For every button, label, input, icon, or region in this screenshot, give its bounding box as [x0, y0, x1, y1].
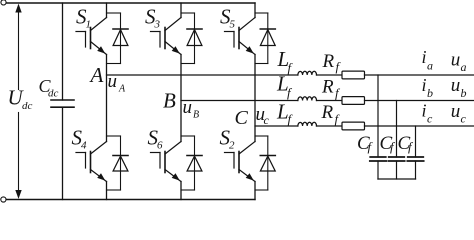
value label Rf (phase B): [321, 76, 341, 100]
svg-text:R: R: [322, 51, 335, 72]
voltage label u_b: [451, 75, 467, 100]
wire phase C : resistor to right edge: [365, 125, 474, 127]
label u_A: [108, 71, 127, 95]
svg-text:6: 6: [157, 140, 163, 152]
svg-text:c: c: [461, 112, 467, 126]
wire leg 3 vertical segments: [254, 3, 256, 200]
value label Lf (phase B): [276, 72, 293, 100]
transistor S6 (lower IGBT leg 2): [151, 142, 182, 182]
svg-text:1: 1: [86, 19, 92, 31]
svg-text:b: b: [427, 86, 433, 100]
label U_dc: [8, 86, 33, 113]
diode D6 (antiparallel, lower leg 2): [181, 136, 202, 190]
value label Rf (phase C): [321, 102, 341, 127]
inductor Lf (phase B): [298, 97, 317, 101]
label S4: [72, 126, 88, 152]
label C_f #3: [398, 133, 415, 154]
node A: [89, 63, 104, 87]
resistor Rf (phase A): [342, 71, 365, 79]
label S1: [76, 5, 91, 31]
label S6: [148, 126, 164, 152]
diode D5 (antiparallel, upper leg 3): [255, 13, 275, 64]
voltage label u_a: [451, 50, 467, 75]
svg-text:i: i: [422, 75, 427, 95]
wire phase C : inductor to resistor: [317, 125, 343, 127]
wire phase C : node to inductor: [255, 125, 298, 127]
wire leg 1 vertical segments: [106, 3, 108, 200]
wire phase B : inductor to resistor: [317, 100, 343, 102]
svg-text:i: i: [422, 101, 427, 121]
label u_B: [183, 97, 200, 121]
value label Lf (phase A): [277, 47, 294, 75]
current label i_c: [422, 101, 434, 126]
diode D2 (antiparallel, lower leg 3): [255, 136, 275, 190]
current label i_a: [422, 47, 434, 72]
label C_f #2: [380, 133, 397, 154]
label S5: [220, 5, 236, 31]
svg-text:2: 2: [229, 140, 235, 152]
svg-text:i: i: [422, 47, 427, 67]
transistor S5 (upper IGBT leg 3): [225, 18, 256, 55]
current label i_b: [422, 75, 434, 100]
svg-text:u: u: [451, 75, 461, 96]
svg-text:b: b: [461, 86, 467, 100]
svg-text:u: u: [451, 101, 461, 122]
label C_dc: [39, 76, 59, 99]
wire capacitor common bar: [378, 178, 416, 180]
svg-text:dc: dc: [22, 100, 33, 112]
label S3: [145, 5, 161, 31]
wire phase B : resistor to right edge: [365, 100, 474, 102]
diode D3 (antiparallel, upper leg 2): [181, 13, 202, 64]
svg-text:c: c: [264, 113, 270, 127]
voltage arrow U_dc (double-headed): [15, 4, 21, 199]
svg-text:u: u: [451, 50, 461, 71]
terminal + (top-left): [1, 0, 6, 5]
inductor Lf (phase A): [298, 71, 317, 75]
voltage label u_c: [451, 101, 467, 126]
resistor Rf (phase C): [342, 122, 365, 130]
value label Lf (phase C): [276, 100, 294, 127]
svg-text:C: C: [235, 107, 249, 129]
svg-text:R: R: [321, 102, 334, 123]
svg-text:R: R: [321, 76, 334, 97]
transistor S3 (upper IGBT leg 2): [151, 18, 182, 55]
capacitor Cf (phase a): [370, 75, 386, 179]
node B: [163, 89, 176, 113]
svg-text:5: 5: [230, 19, 236, 31]
svg-text:a: a: [427, 59, 433, 73]
svg-text:u: u: [183, 97, 193, 118]
wire bottom DC bus: [7, 199, 255, 201]
wire phase B : node to inductor: [181, 100, 298, 102]
value label Rf (phase A): [322, 51, 342, 74]
label u_C: [256, 104, 270, 127]
diode D4 (antiparallel, lower leg 1): [107, 136, 129, 190]
transistor S4 (lower IGBT leg 1): [76, 142, 107, 182]
svg-text:c: c: [427, 112, 433, 126]
capacitor Cf (phase b): [388, 101, 404, 180]
wire phase A : inductor to resistor: [317, 74, 343, 76]
svg-text:A: A: [89, 63, 104, 87]
svg-text:a: a: [461, 60, 467, 74]
svg-text:dc: dc: [48, 87, 59, 99]
svg-text:3: 3: [154, 19, 161, 31]
svg-text:4: 4: [81, 140, 87, 152]
svg-text:u: u: [108, 71, 118, 92]
label S2: [220, 126, 236, 152]
wire phase A : resistor to right edge: [365, 74, 474, 76]
transistor S1 (upper IGBT leg 1): [76, 18, 107, 55]
svg-text:B: B: [163, 89, 176, 113]
svg-text:A: A: [118, 84, 126, 95]
svg-text:B: B: [193, 110, 199, 121]
capacitor Cf (phase c): [407, 126, 423, 179]
wire leg 2 vertical segments: [180, 3, 182, 200]
wire phase A : node to inductor: [107, 74, 298, 76]
capacitor C_dc: [51, 3, 74, 200]
node C: [235, 107, 249, 129]
diode D1 (antiparallel, upper leg 1): [107, 13, 129, 64]
inductor Lf (phase C): [298, 122, 317, 126]
transistor S2 (lower IGBT leg 3): [225, 142, 256, 182]
wire top DC bus: [7, 2, 255, 4]
label C_f #1: [357, 133, 374, 154]
resistor Rf (phase B): [342, 97, 365, 105]
terminal - (bottom-left): [1, 197, 6, 202]
